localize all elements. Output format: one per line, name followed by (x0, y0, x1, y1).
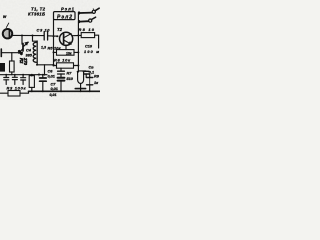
capacitor C3 (43, 32, 45, 41)
node K (21, 52, 23, 54)
svg-text:Рэл2: Рэл2 (57, 15, 72, 21)
node Tr1 bottom junction (36, 64, 38, 66)
svg-text:0,01: 0,01 (50, 93, 57, 97)
wire R4 top lead (31, 75, 33, 76)
wire R6 right lead (74, 65, 79, 67)
svg-text:1,3: 1,3 (41, 46, 46, 50)
capacitor C9 electrolytic (42, 75, 44, 78)
wire mic to C3 (12, 34, 44, 36)
resistor R5 (57, 50, 75, 56)
svg-text:Рэл1: Рэл1 (61, 6, 75, 11)
wire R6 left lead (54, 65, 57, 67)
earpiece (78, 72, 84, 84)
svg-text:Св: Св (89, 66, 95, 70)
svg-text:R8 10: R8 10 (79, 27, 95, 32)
svg-text:С10: С10 (85, 45, 93, 49)
microphone BM1 (3, 29, 12, 38)
wire T2 emitter down (65, 45, 67, 49)
capacitor C10 electrolytic (89, 75, 91, 78)
wire R3 right lead (20, 91, 29, 93)
wire to C8 (78, 70, 85, 72)
node M (42, 90, 44, 92)
wire left input (1, 52, 22, 54)
svg-text:510: 510 (67, 77, 74, 81)
resistor R3 (8, 91, 20, 97)
node T2 base junction (56, 35, 58, 37)
wire T2 collector right (73, 34, 81, 36)
capacitor C7 (58, 77, 65, 79)
wire R3 left lead (0, 92, 8, 94)
node I (77, 65, 79, 67)
node H (77, 51, 79, 53)
contact K1 (78, 11, 80, 14)
svg-text:R2: R2 (19, 58, 24, 64)
capacitor C6 (60, 68, 62, 71)
wire R5 left lead (54, 51, 57, 53)
svg-text:385: 385 (26, 54, 33, 58)
transistor T2 (60, 32, 73, 45)
contact K2 (78, 20, 80, 23)
wire base drop T1 (21, 36, 23, 45)
left terminal (0, 49, 2, 57)
relay coil box Rel1 (54, 12, 76, 20)
bus right vertical (77, 14, 79, 20)
node C (53, 35, 55, 37)
resistor R4 (29, 76, 34, 88)
wire transformer bottom (37, 64, 53, 66)
wire drop to transformer (33, 36, 38, 42)
rail lower (0, 74, 47, 76)
wire C3 to T2 (48, 35, 58, 37)
node D (53, 51, 55, 53)
wire R5 right lead (74, 51, 78, 53)
svg-text:R6 10к: R6 10к (54, 58, 71, 63)
capacitor C2 (14, 75, 16, 77)
capacitor C5 (22, 75, 24, 78)
node F (53, 64, 55, 66)
ground bus (29, 90, 101, 92)
rail tap dots (5, 74, 90, 92)
node N (60, 90, 62, 92)
node L (31, 90, 33, 92)
svg-text:КТ361Б: КТ361Б (28, 12, 45, 17)
svg-text:0,01: 0,01 (51, 87, 58, 91)
transformer Tr1 winding (33, 42, 36, 62)
node G (77, 34, 79, 36)
wire R2 top lead (11, 53, 13, 61)
svg-text:R3 100к: R3 100к (7, 86, 27, 91)
capacitor C8 (84, 70, 89, 72)
node E (53, 65, 55, 67)
transistor T1 (22, 44, 24, 52)
wire R2 bottom lead (11, 72, 13, 75)
capacitor C1 (5, 75, 7, 78)
wire to rail (44, 65, 46, 75)
svg-text:Т2: Т2 (57, 27, 63, 32)
connector block (0, 63, 5, 72)
wire R8 right (95, 35, 99, 48)
resistor R6 (57, 63, 74, 68)
svg-text:10к: 10к (66, 51, 72, 55)
resistor R2 (10, 61, 15, 72)
node B (32, 35, 34, 37)
transformer Tr1 core (36, 41, 38, 65)
node A (21, 35, 23, 37)
svg-text:270: 270 (23, 57, 28, 66)
svg-text:0,01: 0,01 (48, 75, 55, 79)
wire R4 bottom lead (31, 87, 33, 91)
resistor R8 (81, 33, 94, 38)
bus left vertical (53, 20, 55, 66)
